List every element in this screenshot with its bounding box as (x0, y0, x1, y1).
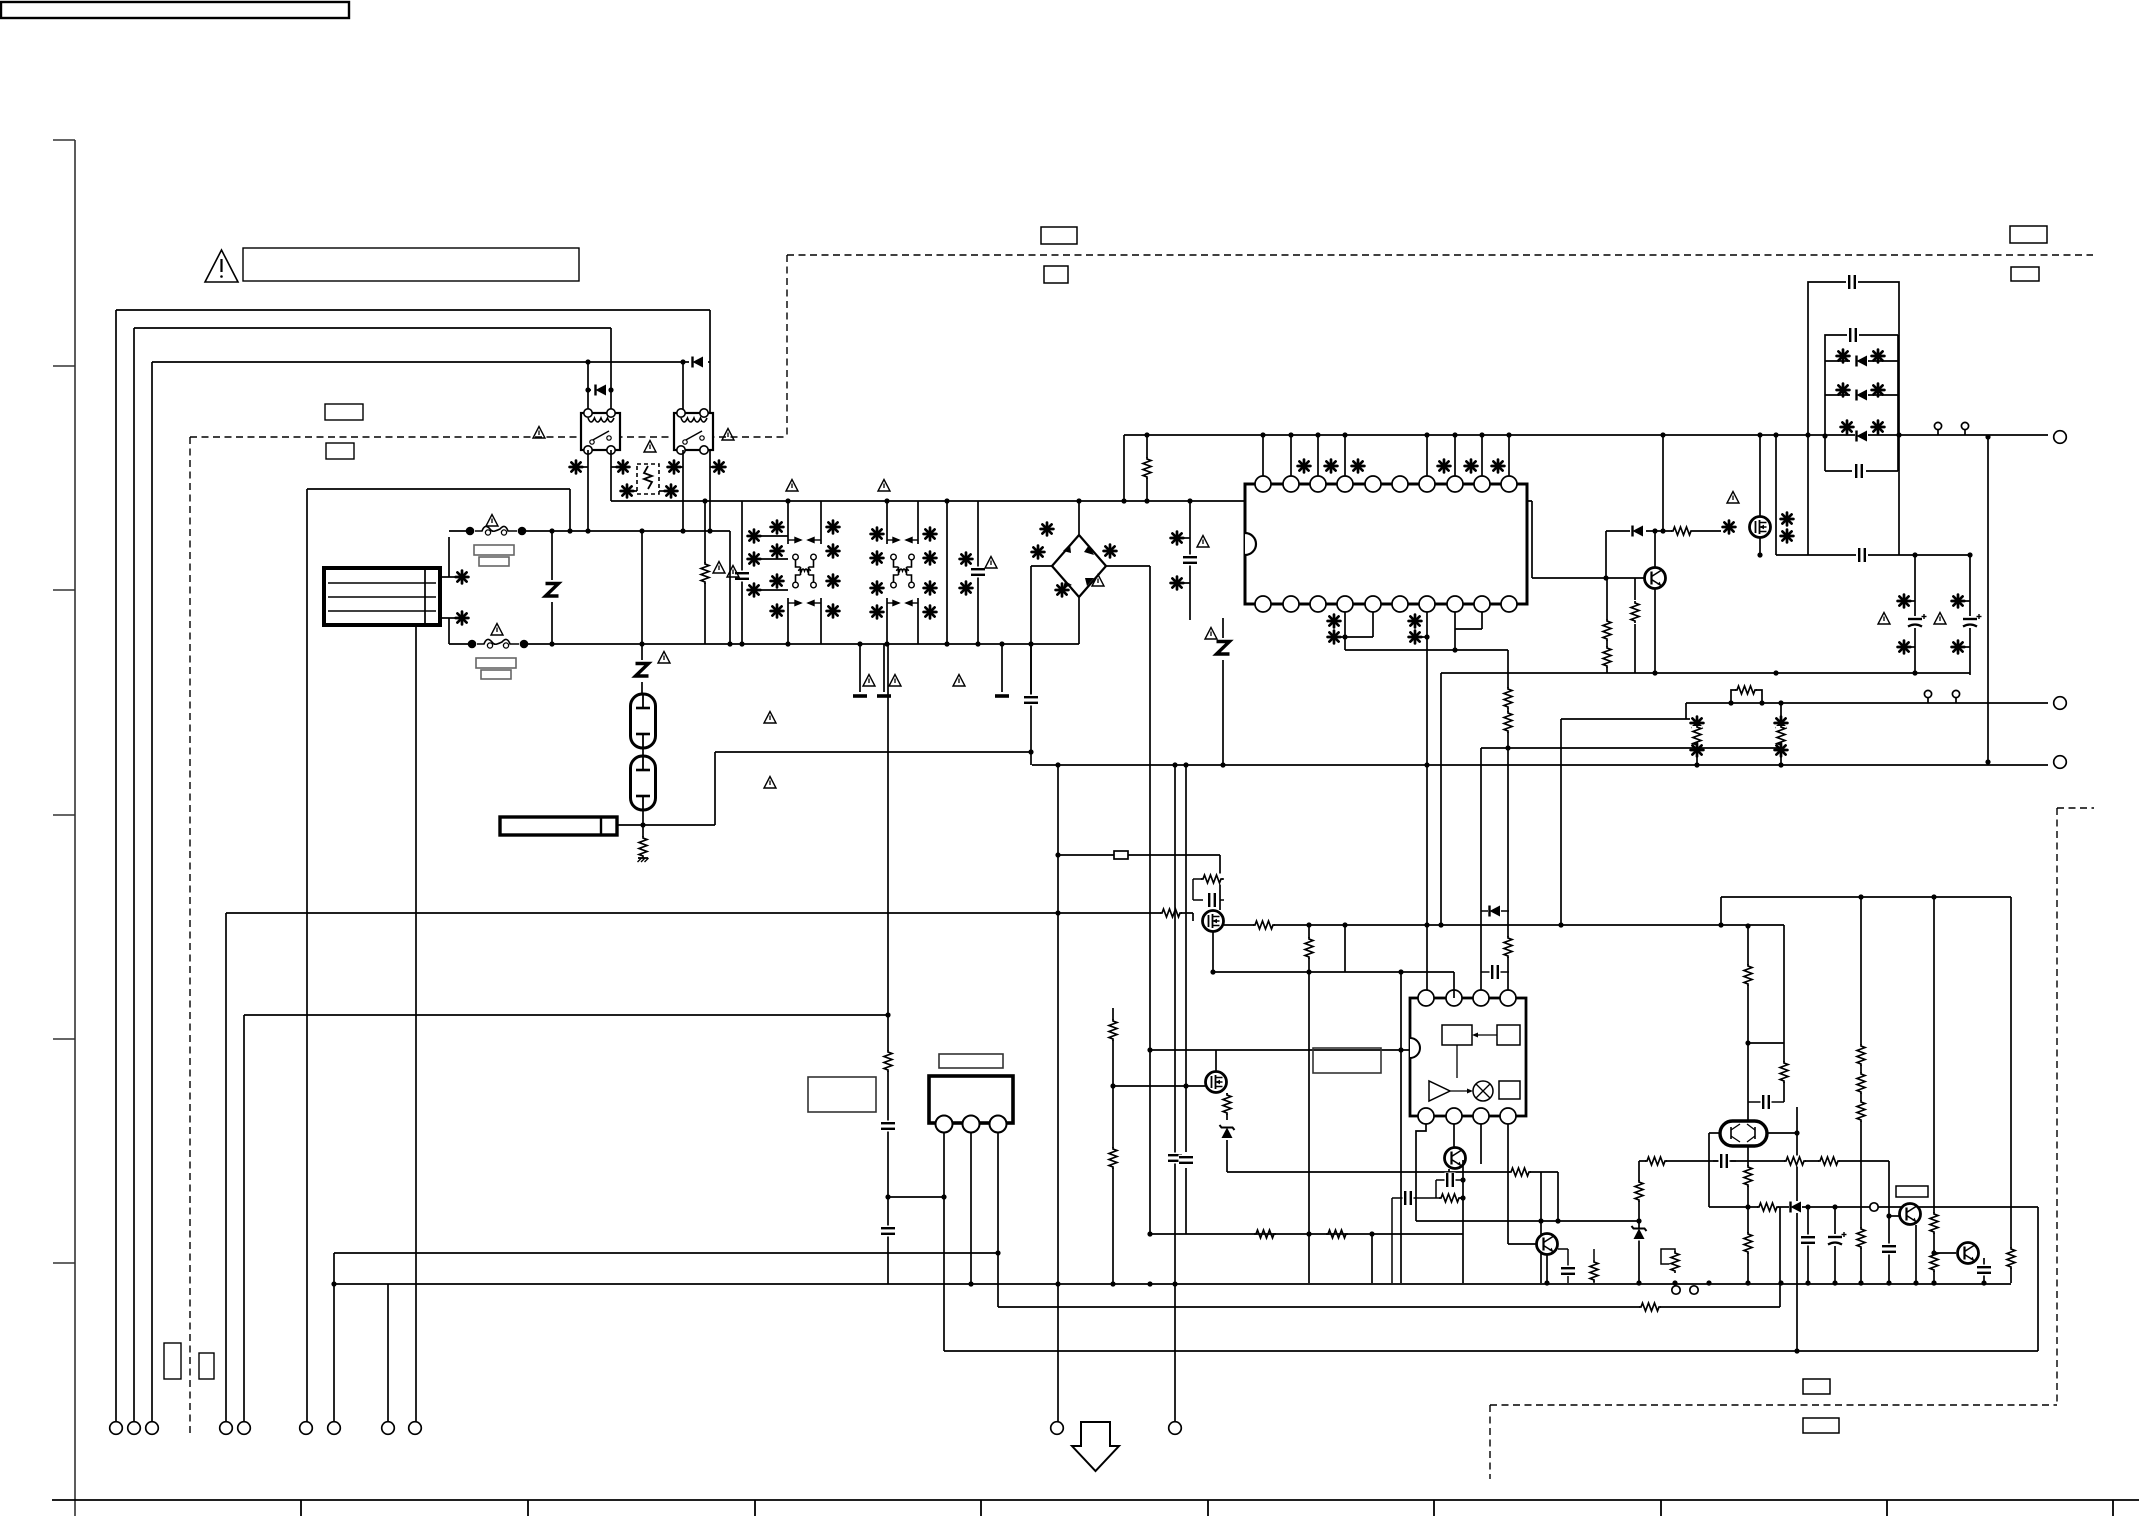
capacitor (1719, 1154, 1730, 1169)
wire (1481, 747, 1697, 749)
component (1298, 460, 1311, 473)
node (1506, 432, 1511, 437)
IC U1 pin 17 (bottom) (1419, 596, 1435, 612)
IC U1 pin 2 (top) (1283, 476, 1299, 492)
wire (970, 1133, 972, 1284)
warning symbol (985, 557, 997, 569)
IC U2 internal block (1442, 1025, 1472, 1045)
IC U1 pin 11 (bottom) (1255, 596, 1271, 612)
node (1745, 1280, 1750, 1285)
wire (1436, 1197, 1463, 1199)
node (1805, 1204, 1810, 1209)
wire (1212, 932, 1214, 972)
node (639, 528, 644, 533)
node (1147, 1231, 1152, 1236)
IC U2 pin 1 (top) (1418, 990, 1434, 1006)
capacitor (1854, 464, 1865, 479)
RC snubber loop (1193, 879, 1224, 900)
wire (1560, 719, 1562, 925)
node (1028, 749, 1033, 754)
wire (1720, 897, 1722, 925)
wire (611, 466, 616, 468)
component (1952, 641, 1965, 654)
component (1898, 641, 1911, 654)
node (1183, 762, 1188, 767)
node (680, 359, 685, 364)
wire (1030, 566, 1032, 765)
wire (946, 501, 948, 644)
warning note box (243, 248, 579, 281)
chassis ground bar (995, 694, 1009, 698)
wire (2010, 897, 2012, 1283)
capacitor (1828, 1232, 1847, 1246)
ruler tick (300, 1500, 302, 1516)
wire (1481, 971, 1509, 973)
lamp (631, 694, 656, 748)
component (456, 571, 469, 584)
wire (2037, 1207, 2039, 1351)
wire (1489, 1405, 1491, 1479)
wire (1453, 1124, 1455, 1147)
component (1352, 460, 1365, 473)
wire (133, 328, 135, 1422)
wire (1721, 896, 2011, 898)
node (1896, 432, 1901, 437)
IC U1 pin 6 (top) (1392, 476, 1408, 492)
node (1985, 434, 1990, 439)
node (1398, 969, 1403, 974)
wire (440, 617, 455, 619)
component (1325, 460, 1338, 473)
capacitor (1561, 1266, 1576, 1277)
wire (1148, 1233, 1463, 1235)
wire (306, 489, 308, 1422)
IC U1 pin 18 (bottom) (1447, 596, 1463, 612)
ground (638, 858, 649, 862)
wire (1697, 747, 1781, 749)
bypass loop (1731, 690, 1762, 703)
node (884, 498, 889, 503)
warning symbol (1878, 613, 1890, 625)
wire (449, 643, 468, 645)
wire (1888, 1161, 1890, 1283)
node (1660, 528, 1665, 533)
component (617, 461, 630, 474)
warning symbol (658, 652, 670, 664)
wire (704, 501, 706, 644)
wire (134, 327, 611, 329)
wire (1344, 435, 1346, 476)
resistor (1743, 1165, 1754, 1187)
connector pin (382, 1422, 395, 1435)
wire (714, 752, 716, 825)
node (1773, 670, 1778, 675)
label box (1041, 227, 1077, 244)
capacitor (1882, 1244, 1897, 1255)
common-mode choke (793, 554, 817, 588)
component (827, 605, 840, 618)
wire (440, 576, 455, 578)
component (871, 582, 884, 595)
node (999, 641, 1004, 646)
wire (610, 389, 612, 391)
resistor (1602, 646, 1613, 668)
wire (1192, 913, 1194, 921)
resistor (1503, 711, 1514, 733)
wire (526, 530, 730, 532)
IC U1 pin 16 (bottom) (1392, 596, 1408, 612)
node (1805, 432, 1810, 437)
wire (1796, 1107, 1798, 1351)
wire (1058, 854, 1220, 856)
node (680, 528, 685, 533)
IC U1 pin 8 (top) (1447, 476, 1463, 492)
connector pin (1169, 1422, 1182, 1435)
wire (1317, 435, 1319, 476)
component (1781, 530, 1794, 543)
connector pin (300, 1422, 313, 1435)
capacitor (1847, 275, 1858, 290)
warning symbol (953, 675, 965, 687)
page reference arrow (1072, 1422, 1119, 1471)
resistor (1776, 725, 1787, 747)
component (827, 545, 840, 558)
node (1603, 575, 1608, 580)
node (1438, 922, 1443, 927)
diode (1488, 905, 1501, 917)
wire (610, 328, 612, 413)
ruler tick (53, 589, 75, 591)
IC U2 internal arrow (1450, 1089, 1473, 1094)
wire (1532, 577, 1644, 579)
component (924, 582, 937, 595)
resistor (1757, 1202, 1779, 1213)
wire (943, 1133, 945, 1351)
warning symbol (1934, 613, 1946, 625)
node (857, 641, 862, 646)
IC U2 internal block (1497, 1025, 1520, 1045)
wire (1825, 360, 1850, 362)
wire (1987, 437, 1989, 762)
resistor (1856, 1044, 1867, 1066)
IC U1 pin 5 (top) (1365, 476, 1381, 492)
wire (761, 589, 788, 591)
node (1745, 1040, 1750, 1045)
node (1121, 498, 1126, 503)
wire (1174, 765, 1176, 1422)
wire (1454, 612, 1456, 650)
wire (1344, 925, 1346, 972)
wire (1748, 1101, 1784, 1103)
IC U2 pin 3 (top) (1473, 990, 1489, 1006)
component (1438, 460, 1451, 473)
fuse holder label (479, 557, 509, 566)
wire (1440, 673, 1442, 925)
wire (1426, 612, 1428, 998)
IC U2 pin 5 (bottom) (1418, 1108, 1434, 1124)
node (1794, 1348, 1799, 1353)
resistor (1692, 725, 1703, 747)
node (785, 498, 790, 503)
node (885, 1012, 890, 1017)
node (585, 359, 590, 364)
IC U2 internal wire (1456, 1045, 1458, 1078)
test terminal (1924, 690, 1931, 703)
wire (1540, 1172, 1542, 1283)
wire (226, 912, 1193, 914)
node (1424, 922, 1429, 927)
node (1652, 528, 1657, 533)
node (1172, 762, 1177, 767)
spark gap Z (1214, 638, 1232, 660)
wire (1964, 646, 1970, 648)
wire (1345, 649, 1508, 651)
ruler tick (754, 1500, 756, 1516)
node (1967, 552, 1972, 557)
ruler tick (1660, 1500, 1662, 1516)
test terminal (1961, 422, 1968, 435)
component (1041, 523, 1054, 536)
MOSFET Q4 (1206, 1072, 1227, 1093)
wire (886, 598, 888, 644)
wire (1344, 612, 1346, 650)
node (1886, 1280, 1891, 1285)
node (1210, 969, 1215, 974)
diode (1855, 430, 1868, 442)
left ruler line (74, 140, 76, 1516)
wire (1558, 1248, 1568, 1250)
wire (1889, 1215, 1900, 1217)
coupling arrows (887, 538, 918, 606)
warning symbol (644, 441, 656, 453)
ruler tick (1886, 1500, 1888, 1516)
wire (859, 644, 861, 692)
node (727, 641, 732, 646)
wire (710, 466, 712, 468)
capacitor (1024, 695, 1039, 706)
wire (569, 489, 571, 531)
wire (1775, 435, 1777, 555)
component (1775, 744, 1788, 757)
node (1055, 910, 1060, 915)
node (1636, 1280, 1641, 1285)
wire (189, 437, 191, 1436)
wire (1639, 1160, 1889, 1162)
wire (1780, 757, 1782, 765)
bottom ruler line (52, 1499, 2139, 1501)
wire (307, 488, 570, 490)
node (1805, 1280, 1810, 1285)
wire (1546, 1255, 1548, 1283)
wire (588, 389, 591, 391)
wire (1481, 612, 1483, 629)
fuse F2 (468, 636, 529, 650)
node (1172, 1281, 1177, 1286)
node (585, 387, 590, 392)
fuse holder label (474, 545, 514, 555)
wire (448, 618, 450, 644)
wire (820, 501, 822, 544)
wire (1593, 1281, 1595, 1283)
fuse holder label (476, 658, 516, 668)
wire (1416, 1124, 1426, 1221)
node (1706, 1280, 1711, 1285)
component (771, 575, 784, 588)
node (1981, 1280, 1986, 1285)
wire (1868, 360, 1898, 362)
resistor (1671, 526, 1693, 537)
wire (1481, 435, 1483, 476)
component (665, 485, 678, 498)
wire (944, 1350, 2038, 1352)
wire (787, 501, 789, 544)
wire (997, 1133, 999, 1307)
label box (164, 1343, 181, 1379)
warning symbol (889, 675, 901, 687)
lamp (631, 756, 656, 810)
wire (1693, 530, 1721, 532)
resistor (1645, 1156, 1667, 1167)
ruler tick (1207, 1500, 1209, 1516)
output connector (2054, 756, 2067, 769)
warning symbol (1092, 575, 1104, 587)
wire (152, 361, 689, 363)
resistor (1856, 1072, 1867, 1094)
component (1104, 545, 1117, 558)
node (944, 498, 949, 503)
node (608, 387, 613, 392)
wire (1226, 1093, 1228, 1120)
test terminal (1672, 1286, 1680, 1294)
regulator pin 3 (990, 1116, 1007, 1133)
wire (1713, 1160, 1718, 1162)
wire (1561, 718, 1690, 720)
chassis ground bar (853, 694, 867, 698)
node (1424, 762, 1429, 767)
wire (1748, 1042, 1784, 1044)
resistor (1602, 619, 1613, 641)
wire (729, 531, 731, 644)
IC U1 pin 9 (top) (1474, 476, 1490, 492)
wire (642, 748, 644, 757)
wire (1638, 1161, 1640, 1283)
IC U2 internal arrow (1472, 1033, 1497, 1038)
resistor (1201, 874, 1223, 885)
IC U2 package (1410, 998, 1526, 1116)
zener diode (1632, 1226, 1647, 1241)
wire (1222, 618, 1224, 765)
wire (883, 644, 885, 692)
thermal fuse (dashed box) (637, 464, 659, 494)
IC U2 internal amp (1429, 1081, 1450, 1101)
chassis ground bar (877, 694, 891, 698)
wire (1146, 435, 1148, 501)
capacitor (1857, 548, 1868, 563)
resistor (1503, 687, 1514, 709)
node (1306, 922, 1311, 927)
wire (917, 501, 919, 544)
wire (1860, 897, 1862, 1283)
node (1147, 1281, 1152, 1286)
label box (325, 404, 363, 420)
component (1898, 595, 1911, 608)
wire (1779, 1207, 1781, 1307)
wire (1480, 748, 1482, 998)
label box (1896, 1186, 1928, 1197)
node (1369, 1231, 1374, 1236)
oscillator (dual transistor) (1720, 1121, 1767, 1146)
ruler tick (527, 1500, 529, 1516)
node (1745, 1204, 1750, 1209)
node (1260, 432, 1265, 437)
capacitor (1963, 614, 1982, 628)
node (1479, 432, 1484, 437)
wire (1557, 1172, 1559, 1221)
component (924, 606, 937, 619)
test terminal (1870, 1203, 1878, 1211)
wire (115, 310, 117, 1422)
IC U1 pin 13 (bottom) (1310, 596, 1326, 612)
component (1952, 595, 1965, 608)
wire (334, 1252, 998, 1254)
wire (587, 362, 589, 413)
node (1985, 759, 1990, 764)
wire (1934, 1252, 1956, 1254)
relay RY1 (581, 409, 620, 454)
component (1781, 513, 1794, 526)
connector pin (409, 1422, 422, 1435)
wire (1435, 1180, 1437, 1198)
wire (387, 1284, 389, 1422)
node (1055, 1281, 1060, 1286)
wire (1448, 1169, 1450, 1180)
capacitor (1908, 614, 1927, 628)
wire (1078, 597, 1080, 644)
component (1841, 421, 1854, 434)
wire (1759, 538, 1761, 555)
node (884, 641, 889, 646)
MOSFET Q1 (1750, 517, 1771, 538)
IC U2 pin 6 (bottom) (1446, 1108, 1462, 1124)
capacitor (1445, 1173, 1456, 1188)
resistor (1108, 1147, 1119, 1169)
warning symbol (727, 566, 739, 578)
wire (659, 490, 664, 492)
node (975, 641, 980, 646)
wire (917, 598, 919, 644)
IC U1 pin 14 (bottom) (1337, 596, 1353, 612)
wire (1507, 1124, 1509, 1244)
fuse F1 (466, 523, 527, 537)
spark gap Z (633, 660, 651, 682)
component (1691, 717, 1704, 730)
component (1492, 460, 1505, 473)
node (1778, 1280, 1783, 1285)
ruler tick (980, 1500, 982, 1516)
resistor (1743, 1232, 1754, 1254)
node (1773, 432, 1778, 437)
wire (1372, 612, 1374, 637)
wire (1696, 757, 1698, 765)
capacitor (1403, 1191, 1414, 1206)
resistor (1326, 1229, 1348, 1240)
wire (1911, 646, 1915, 648)
transistor Q8 (1537, 1234, 1558, 1255)
node (944, 641, 949, 646)
component (1328, 631, 1341, 644)
resistor (1589, 1260, 1600, 1282)
component (456, 612, 469, 625)
